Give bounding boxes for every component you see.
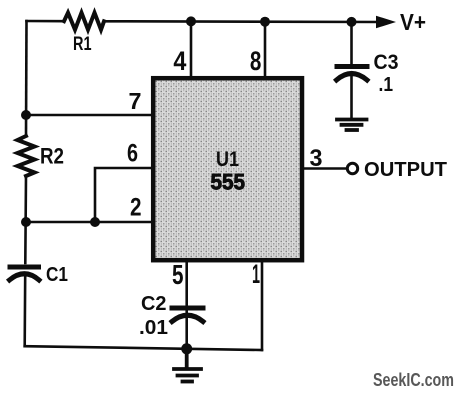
svg-text:2: 2 (130, 194, 142, 222)
wire top rail left segment (27, 20, 65, 23)
svg-text:.01: .01 (139, 317, 168, 339)
resistor R2 (18, 136, 35, 176)
svg-text:.1: .1 (379, 74, 394, 96)
wire pin 5 (185, 260, 188, 349)
wire pin 6 with step (95, 168, 153, 222)
ground below C3 (337, 120, 367, 131)
wire pin 2 (26, 221, 153, 224)
svg-text:5: 5 (172, 259, 184, 290)
output terminal circle (347, 163, 357, 173)
node C3 top rail (347, 17, 357, 27)
node pin4 top rail (186, 16, 196, 26)
svg-text:3: 3 (310, 145, 323, 172)
node C2 / ground on bottom rail (181, 343, 192, 354)
ground below C2 at bottom rail (174, 349, 201, 382)
svg-text:C3: C3 (374, 50, 399, 74)
svg-text:SeekIC.com: SeekIC.com (373, 370, 454, 390)
svg-text:555: 555 (211, 170, 246, 195)
wire pin 8 (264, 22, 267, 78)
wire pin 3 (302, 167, 347, 170)
node pin8 top rail (260, 17, 270, 27)
svg-text:R2: R2 (40, 144, 64, 169)
svg-text:OUTPUT: OUTPUT (364, 158, 447, 181)
wire left vertical lower (C1 to bottom rail) (23, 274, 26, 346)
capacitor C3 (337, 67, 368, 81)
resistor R1 (64, 13, 104, 30)
svg-text:7: 7 (129, 88, 142, 114)
svg-text:1: 1 (252, 259, 260, 289)
node pin7 / R2 (21, 110, 31, 120)
svg-text:C2: C2 (141, 293, 167, 315)
wire pin 4 (190, 21, 193, 78)
svg-text:C1: C1 (46, 263, 68, 286)
node pin2 / pin6 step (90, 217, 100, 227)
svg-text:4: 4 (173, 46, 186, 76)
wire pin 7 (26, 114, 153, 117)
wire left vertical upper (corner to pin7 node) (25, 21, 28, 136)
wire left vertical middle (R2 to C1) (24, 176, 27, 263)
svg-text:R1: R1 (73, 33, 92, 55)
IC U1 555 box (153, 78, 302, 260)
capacitor C2 (172, 308, 203, 322)
node pin2 / C1 (21, 217, 31, 227)
wire top rail to V+ arrow (104, 20, 380, 23)
V+ arrowhead (376, 16, 396, 29)
wire C3 branch lower (350, 75, 353, 118)
svg-text:V+: V+ (400, 9, 426, 35)
wire C3 branch upper (350, 22, 353, 64)
wire pin 1 (261, 260, 264, 350)
svg-text:8: 8 (250, 46, 262, 76)
svg-text:U1: U1 (216, 148, 239, 171)
capacitor C1 (10, 267, 40, 280)
wire bottom rail (25, 346, 262, 350)
svg-text:6: 6 (127, 140, 138, 168)
